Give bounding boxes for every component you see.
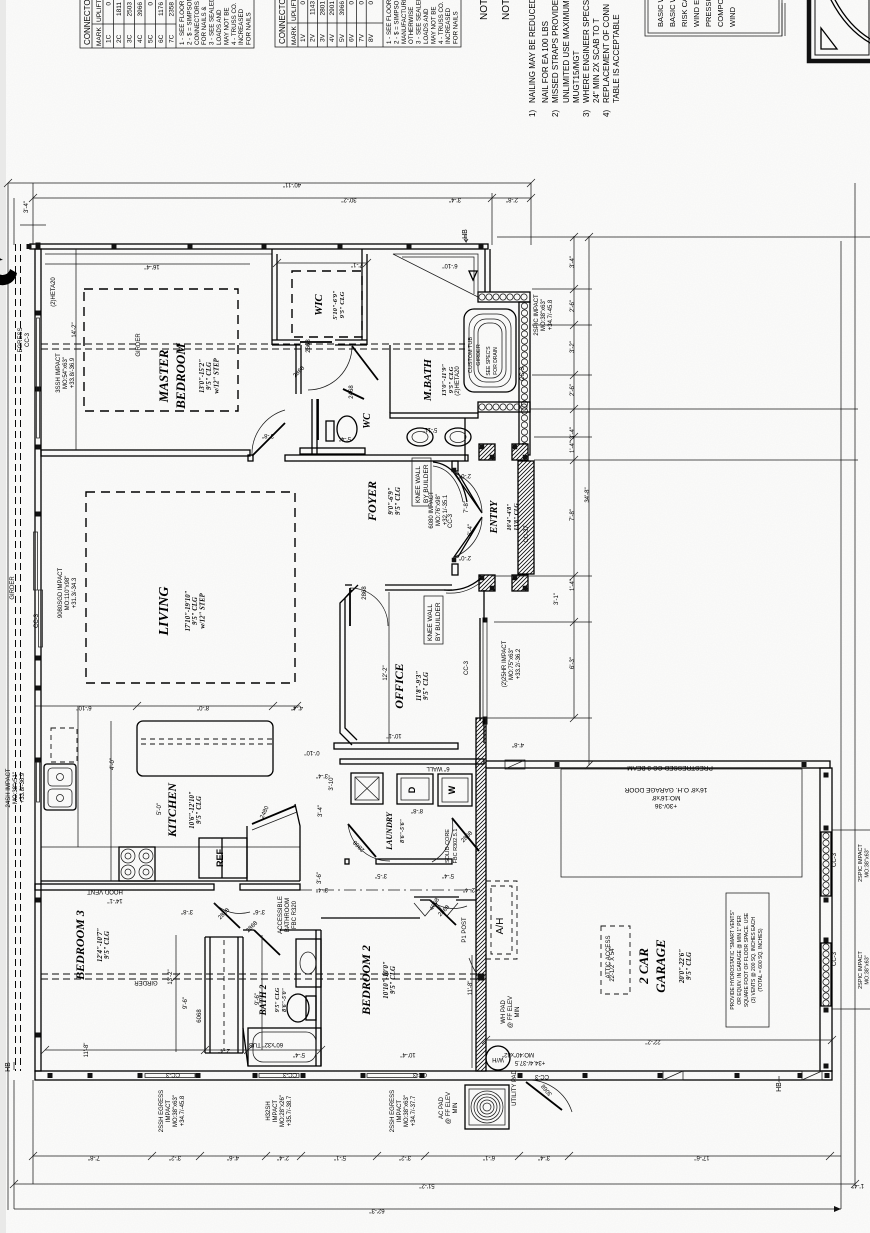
hall dash-dot	[300, 889, 480, 891]
svg-text:(2)HETA20: (2)HETA20	[455, 366, 461, 396]
windows left wall	[37, 318, 40, 438]
svg-text:REF: REF	[215, 848, 225, 867]
svg-text:4C: 4C	[137, 34, 144, 43]
svg-text:PRESSURE: PRESSURE	[704, 0, 713, 27]
svg-text:MO:38"x63": MO:38"x63"	[173, 1095, 179, 1127]
svg-text:MARK: MARK	[96, 27, 103, 46]
wc room walls	[311, 399, 313, 455]
svg-text:WC: WC	[362, 413, 373, 429]
svg-text:2901: 2901	[329, 1, 336, 16]
shower niche triangle	[393, 254, 478, 297]
knee wall labels	[412, 458, 431, 506]
svg-text:4): 4)	[602, 110, 611, 117]
svg-text:1'-4": 1'-4"	[570, 441, 576, 453]
svg-text:2503: 2503	[127, 2, 134, 17]
svg-text:1143: 1143	[310, 1, 317, 15]
svg-text:GIRDER: GIRDER	[134, 979, 158, 985]
svg-text:4 - TRUSS CO.: 4 - TRUSS CO.	[438, 1, 445, 44]
svg-text:6'-10": 6'-10"	[442, 262, 457, 268]
svg-text:10'-1": 10'-1"	[386, 732, 401, 738]
svg-text:H32SH: H32SH	[266, 1101, 272, 1120]
master bedroom south wall	[41, 450, 250, 456]
svg-text:0: 0	[358, 1, 365, 5]
bath2 tub	[248, 1028, 321, 1066]
right vertical dim strings	[573, 236, 575, 718]
kitchen lower counter	[41, 846, 300, 848]
office walls	[345, 584, 352, 586]
bath2 door 2868	[254, 930, 280, 955]
svg-text:6V: 6V	[349, 33, 356, 42]
svg-text:3): 3)	[582, 110, 591, 117]
knee wall curve upper	[433, 462, 467, 502]
svg-text:@ FF ELEV: @ FF ELEV	[446, 1092, 452, 1124]
top-left corner dims	[13, 198, 15, 245]
svg-text:3'-4": 3'-4"	[316, 886, 328, 892]
svg-text:9080SGD IMPACT: 9080SGD IMPACT	[58, 568, 64, 619]
svg-text:FOR NAILS: FOR NAILS	[453, 11, 460, 44]
svg-text:3'-5": 3'-5"	[375, 872, 387, 878]
svg-text:LOADS AND: LOADS AND	[423, 8, 430, 44]
svg-text:w/12" STEP: w/12" STEP	[199, 592, 206, 628]
washer	[438, 774, 472, 806]
svg-text:11'-8": 11'-8"	[468, 981, 474, 996]
svg-text:WHERE ENGINEER SPECS: WHERE ENGINEER SPECS	[582, 0, 591, 103]
svg-text:KITCHEN: KITCHEN	[165, 782, 179, 838]
bottom dim lines	[33, 1155, 841, 1157]
svg-text:MO:38"x63": MO:38"x63"	[541, 299, 547, 331]
svg-text:7'-8": 7'-8"	[88, 1154, 100, 1160]
svg-text:2SPIC IMPACT: 2SPIC IMPACT	[858, 843, 864, 881]
svg-text:0: 0	[349, 1, 356, 5]
6 inch wall office/laundry	[340, 759, 484, 764]
hall wall stub	[295, 345, 297, 394]
bedroom3 closet walls	[204, 937, 206, 1053]
door mbath 2468	[317, 399, 319, 440]
svg-text:MO:28"x26": MO:28"x26"	[280, 1095, 286, 1127]
svg-text:SOLID CORE: SOLID CORE	[445, 829, 451, 863]
svg-text:BY BUILDER: BY BUILDER	[423, 464, 430, 503]
svg-text:MASTER: MASTER	[156, 349, 171, 403]
svg-text:MO:38"x63": MO:38"x63"	[865, 848, 870, 877]
bedroom2 north walls	[321, 917, 420, 919]
svg-text:2'-6": 2'-6"	[570, 384, 576, 396]
svg-text:FBC R302.5.1: FBC R302.5.1	[453, 829, 459, 864]
svg-text:+34.7/-45.8: +34.7/-45.8	[548, 299, 554, 330]
svg-text:IMPACT: IMPACT	[273, 1100, 279, 1123]
entry double doors 6080	[454, 473, 482, 513]
svg-text:9'5" CLG: 9'5" CLG	[390, 966, 397, 994]
m bath vanity wall	[390, 413, 478, 418]
svg-text:OFFICE: OFFICE	[392, 663, 406, 708]
bedroom3 interior dims	[45, 1049, 321, 1051]
svg-text:12'4"-10'7": 12'4"-10'7"	[97, 928, 104, 962]
svg-text:+33.8/-36.9: +33.8/-36.9	[70, 357, 76, 388]
wic door 2668	[300, 341, 332, 343]
F/V foundation vents	[505, 760, 525, 769]
svg-text:1C: 1C	[106, 34, 113, 43]
pantry walls	[246, 826, 248, 881]
svg-text:OTHERWISE: OTHERWISE	[408, 7, 415, 44]
svg-text:20'0"-22'6": 20'0"-22'6"	[679, 949, 686, 984]
svg-text:0: 0	[148, 2, 155, 6]
svg-text:5'-0": 5'-0"	[157, 803, 163, 815]
svg-text:4'-8": 4'-8"	[512, 741, 524, 747]
living tray ceiling dashed	[86, 492, 295, 683]
svg-text:2 CAR: 2 CAR	[636, 948, 651, 985]
svg-text:2 - $ = SIMPSON: 2 - $ = SIMPSON	[393, 0, 400, 44]
svg-text:INCREASED: INCREASED	[238, 8, 245, 45]
m bath west wall	[389, 345, 391, 413]
master suite south wall / foyer north	[248, 455, 253, 461]
svg-text:9'5" CLG: 9'5" CLG	[339, 291, 346, 318]
svg-text:1V: 1V	[300, 33, 307, 42]
laundry doors 2868	[348, 824, 376, 857]
kitchen sink double	[44, 764, 76, 810]
svg-text:9'5" CLG: 9'5" CLG	[104, 931, 111, 959]
svg-text:6'-10": 6'-10"	[76, 704, 91, 710]
svg-text:PROVIDE HYDROSTATIC "SMART VEN: PROVIDE HYDROSTATIC "SMART VENTS"	[730, 910, 736, 1010]
svg-text:51'-2": 51'-2"	[419, 1182, 434, 1188]
svg-text:FOYER: FOYER	[365, 481, 379, 522]
svg-text:CC-3: CC-3	[412, 1071, 427, 1077]
svg-text:13'0"-15'2": 13'0"-15'2"	[199, 359, 206, 393]
office interior dim	[388, 592, 390, 743]
svg-text:62'-3": 62'-3"	[369, 1207, 384, 1213]
svg-text:7'-8": 7'-8"	[570, 509, 576, 521]
svg-text:30'-2": 30'-2"	[341, 196, 356, 202]
tub alcove walls	[484, 249, 486, 292]
svg-text:4'-4": 4'-4"	[291, 704, 303, 710]
svg-text:BASIC WIND: BASIC WIND	[656, 0, 665, 27]
svg-text:3'-10": 3'-10"	[329, 775, 335, 790]
svg-text:INCREASED: INCREASED	[445, 7, 452, 44]
svg-text:GARAGE: GARAGE	[653, 939, 668, 993]
svg-text:UTILITY PAD: UTILITY PAD	[512, 1069, 518, 1105]
svg-text:4'-6": 4'-6"	[227, 1154, 239, 1160]
kitchen left counter	[77, 706, 79, 847]
svg-text:2'-8": 2'-8"	[506, 196, 518, 202]
svg-text:17'10"-19'10": 17'10"-19'10"	[185, 590, 192, 631]
svg-text:FOR NAILS: FOR NAILS	[246, 12, 253, 45]
svg-text:GIRDER: GIRDER	[136, 333, 142, 357]
svg-text:+30/-36: +30/-36	[655, 802, 678, 809]
svg-text:3C: 3C	[127, 34, 134, 43]
svg-text:CC-3: CC-3	[464, 660, 470, 675]
svg-text:SQUARE FOOT OF FLOOR SPACE. US: SQUARE FOOT OF FLOOR SPACE. USE	[744, 912, 750, 1007]
svg-text:14'-2": 14'-2"	[72, 322, 78, 337]
svg-text:2'-4": 2'-4"	[463, 886, 475, 892]
svg-text:3'-4": 3'-4"	[570, 427, 576, 439]
svg-text:(TOTAL = 600 SQ. INCHES): (TOTAL = 600 SQ. INCHES)	[758, 928, 764, 991]
svg-text:CC-3: CC-3	[534, 1073, 549, 1079]
windows bottom wall	[145, 1074, 195, 1078]
svg-text:10'6"-12'10": 10'6"-12'10"	[189, 791, 196, 829]
svg-text:24SH IMPACT: 24SH IMPACT	[6, 768, 12, 807]
garage door panel	[561, 769, 802, 877]
svg-text:CONNECTOR LEGEND: CONNECTOR LEGEND	[83, 0, 92, 45]
svg-text:8V: 8V	[368, 33, 375, 42]
kitchen dims	[35, 705, 300, 707]
garage dim	[486, 1039, 832, 1041]
svg-text:1811: 1811	[116, 2, 123, 16]
svg-text:MANUFACTURER: MANUFACTURER	[401, 0, 408, 44]
dishwasher DW dashed	[51, 728, 77, 762]
svg-text:@ FF ELEV: @ FF ELEV	[508, 996, 514, 1028]
svg-text:7'-1": 7'-1"	[351, 261, 363, 267]
svg-text:2868: 2868	[362, 586, 368, 600]
svg-text:UPLIFT: UPLIFT	[291, 0, 298, 21]
svg-text:4'-0": 4'-0"	[110, 758, 116, 770]
svg-text:HB: HB	[5, 1062, 12, 1072]
svg-text:5'-4": 5'-4"	[293, 1051, 305, 1057]
svg-text:1): 1)	[528, 110, 537, 117]
svg-text:UPLIFT: UPLIFT	[96, 0, 103, 22]
svg-text:EGRESS: EGRESS	[18, 327, 24, 352]
svg-text:CONNECTORS AT: CONNECTORS AT	[194, 0, 201, 45]
svg-text:9'-6": 9'-6"	[183, 997, 189, 1009]
kitchen island	[137, 721, 273, 776]
svg-text:CC-3: CC-3	[448, 513, 454, 528]
svg-text:9'5" CLG: 9'5" CLG	[196, 796, 203, 824]
office door 2868	[350, 588, 388, 626]
svg-text:3'-2": 3'-2"	[399, 1154, 411, 1160]
svg-text:3966: 3966	[339, 1, 346, 16]
svg-text:MUGT15/MGT: MUGT15/MGT	[572, 50, 581, 103]
scan hook mark	[0, 257, 17, 285]
svg-text:LAUNDRY: LAUNDRY	[385, 811, 394, 851]
top extension lines	[7, 183, 9, 1210]
svg-text:2'-4": 2'-4"	[277, 1154, 289, 1160]
svg-text:IMPACT: IMPACT	[166, 1100, 172, 1123]
svg-text:FBC R320: FBC R320	[292, 900, 298, 929]
svg-text:3 - SEE SEALED: 3 - SEE SEALED	[209, 0, 216, 45]
svg-text:3'-6": 3'-6"	[317, 872, 323, 884]
svg-text:CC-3: CC-3	[520, 366, 526, 381]
svg-text:BEDROOM: BEDROOM	[173, 343, 188, 410]
AC unit	[465, 1085, 509, 1129]
svg-text:MO:76"x98": MO:76"x98"	[436, 494, 442, 526]
linen 4068 bifold	[414, 903, 458, 916]
svg-text:6'-4": 6'-4"	[468, 524, 474, 536]
svg-text:13'0"-11'9": 13'0"-11'9"	[441, 364, 448, 397]
hall bath door 2868	[214, 903, 240, 928]
svg-text:AC PAD: AC PAD	[439, 1096, 445, 1119]
svg-text:3'-4": 3'-4"	[538, 1154, 550, 1160]
wall connector squares left	[36, 243, 41, 248]
svg-text:9'5" CLG: 9'5" CLG	[192, 597, 199, 625]
svg-text:11'-8": 11'-8"	[84, 1043, 90, 1058]
A/H closet dashed	[486, 881, 517, 959]
svg-text:HOOD VENT: HOOD VENT	[87, 888, 123, 894]
svg-text:3966: 3966	[137, 2, 144, 17]
svg-text:9'5" CLG: 9'5" CLG	[395, 487, 402, 515]
svg-text:M.BATH: M.BATH	[422, 359, 434, 402]
svg-text:CONNECTOR LEGEND: CONNECTOR LEGEND	[278, 0, 287, 44]
svg-text:BY BUILDER: BY BUILDER	[435, 602, 442, 641]
svg-text:GIRDER: GIRDER	[10, 576, 16, 600]
svg-text:5'-4": 5'-4"	[442, 872, 454, 878]
dryer	[397, 774, 433, 804]
svg-text:5'-1": 5'-1"	[334, 1154, 346, 1160]
svg-text:+34.4/-37.5: +34.4/-37.5	[514, 1059, 545, 1065]
garage side door 3068	[526, 1082, 562, 1110]
svg-text:(3) VENTS @ 200 SQ. INCHES EAC: (3) VENTS @ 200 SQ. INCHES EACH	[751, 917, 757, 1003]
svg-text:MARK: MARK	[291, 26, 298, 45]
svg-text:3'-1": 3'-1"	[554, 593, 560, 605]
svg-text:2SSH EGRESS: 2SSH EGRESS	[390, 1090, 396, 1132]
svg-text:6" WALL: 6" WALL	[426, 765, 450, 771]
svg-text:WH PAD: WH PAD	[501, 1000, 507, 1024]
svg-text:3'-4": 3'-4"	[570, 256, 576, 268]
svg-text:2V: 2V	[310, 33, 317, 42]
svg-text:2801: 2801	[319, 1, 326, 16]
svg-text:MISSED STRAPS PROVIDE: MISSED STRAPS PROVIDE	[551, 0, 560, 103]
svg-text:+33.2/-36.2: +33.2/-36.2	[516, 648, 522, 679]
svg-text:12'-2": 12'-2"	[383, 665, 389, 680]
svg-text:0'-10": 0'-10"	[304, 749, 319, 755]
svg-text:P1 POST: P1 POST	[462, 917, 468, 943]
svg-text:TABLE IS ACCEPTABLE: TABLE IS ACCEPTABLE	[612, 14, 621, 103]
dim line 30-2 top	[33, 197, 531, 199]
svg-text:FOR DRAIN: FOR DRAIN	[493, 347, 499, 375]
svg-text:BEDROOM 3: BEDROOM 3	[73, 910, 87, 981]
svg-text:2 - $ = SIMPSON: 2 - $ = SIMPSON	[186, 0, 193, 45]
kitchen / bedroom3 wall	[35, 884, 214, 890]
svg-text:2): 2)	[551, 110, 560, 117]
svg-text:9'5" CLG: 9'5" CLG	[275, 987, 281, 1012]
svg-text:5'-4": 5'-4"	[339, 435, 351, 441]
svg-text:2SPIC IMPACT: 2SPIC IMPACT	[858, 950, 864, 988]
wh circle	[486, 1046, 510, 1070]
svg-text:HB: HB	[462, 229, 469, 239]
range cooktop	[119, 847, 155, 881]
svg-text:5V: 5V	[339, 33, 346, 42]
svg-text:MO:16'x8': MO:16'x8'	[652, 794, 681, 801]
right vertical dim lines	[840, 241, 842, 1209]
master tray ceiling dashed	[84, 289, 238, 411]
svg-text:MO:110"x98": MO:110"x98"	[65, 576, 71, 611]
wall connector squares bottom	[48, 1073, 53, 1078]
svg-text:(2)25HR IMPACT: (2)25HR IMPACT	[502, 640, 508, 687]
svg-text:9'5" CLG: 9'5" CLG	[686, 952, 693, 980]
door wc 2468	[343, 389, 364, 399]
svg-text:11'8"-9'3": 11'8"-9'3"	[416, 671, 423, 701]
garage windows right wall	[821, 832, 831, 896]
svg-text:w/12" STEP: w/12" STEP	[213, 357, 220, 393]
smart vents note box	[726, 893, 769, 1027]
svg-text:CUSTOM TUB: CUSTOM TUB	[468, 337, 474, 373]
bath2 toilet	[287, 994, 309, 1022]
svg-text:7C: 7C	[169, 34, 176, 43]
svg-text:IMPACT: IMPACT	[397, 1100, 403, 1123]
svg-text:22'-2": 22'-2"	[645, 1038, 660, 1044]
svg-text:14'-1": 14'-1"	[107, 897, 122, 903]
svg-text:MO:38"x63": MO:38"x63"	[865, 955, 870, 984]
wic dim line	[277, 262, 367, 264]
door wic 2868	[352, 346, 378, 380]
svg-text:10'-4": 10'-4"	[400, 1051, 415, 1057]
m bath sinks	[407, 428, 433, 446]
svg-text:A/H: A/H	[495, 918, 506, 935]
svg-text:WIND: WIND	[728, 6, 737, 27]
svg-text:MO:75"x63": MO:75"x63"	[509, 648, 515, 680]
svg-text:4 - TRUSS CO.: 4 - TRUSS CO.	[231, 2, 238, 45]
svg-text:+34.7/-45.8: +34.7/-45.8	[180, 1095, 186, 1126]
svg-text:BASIC WIND: BASIC WIND	[668, 0, 677, 27]
svg-text:MAY NOT BE: MAY NOT BE	[430, 7, 437, 44]
attic access dashed	[601, 926, 630, 994]
svg-text:+34.7/-37.7: +34.7/-37.7	[411, 1095, 417, 1126]
svg-text:3'-4": 3'-4"	[316, 772, 328, 778]
bottom extension verticals	[13, 1080, 15, 1209]
svg-text:COMPONENT: COMPONENT	[716, 0, 725, 27]
svg-text:KNEE WALL: KNEE WALL	[427, 604, 434, 641]
svg-text:3'-8": 3'-8"	[262, 432, 274, 438]
svg-text:0: 0	[368, 1, 375, 5]
svg-text:LOADS AND: LOADS AND	[216, 9, 223, 45]
svg-text:7V: 7V	[358, 33, 365, 42]
table connector legend	[275, 0, 461, 47]
corner detail graphic	[809, 0, 870, 61]
svg-text:4V: 4V	[329, 33, 336, 42]
svg-text:2C: 2C	[116, 34, 123, 43]
svg-text:MIN: MIN	[515, 1007, 521, 1018]
svg-text:FOR NAILS &: FOR NAILS &	[201, 6, 208, 45]
svg-text:5'-11": 5'-11"	[423, 426, 438, 432]
svg-text:1 - SEE FLOOR PLAN: 1 - SEE FLOOR PLAN	[179, 0, 186, 45]
svg-text:2SSH EGRESS: 2SSH EGRESS	[159, 1090, 165, 1132]
svg-text:40'-11": 40'-11"	[283, 181, 301, 187]
svg-text:8'6"-5'0": 8'6"-5'0"	[282, 988, 288, 1012]
svg-text:34'-8": 34'-8"	[585, 487, 591, 502]
svg-text:2SPIC IMPACT: 2SPIC IMPACT	[534, 294, 540, 336]
table connector legend	[80, 0, 254, 48]
knee wall curve lower	[444, 578, 481, 590]
svg-text:24" MIN 2X SCAB TO T: 24" MIN 2X SCAB TO T	[592, 18, 601, 103]
lanai girder dashes	[15, 244, 17, 1071]
svg-text:13'-2": 13'-2"	[168, 969, 174, 984]
svg-text:1'-4": 1'-4"	[570, 579, 576, 591]
svg-text:3'-2": 3'-2"	[169, 1154, 181, 1160]
svg-text:NOTE: NOTE	[479, 0, 490, 20]
svg-text:6'-1": 6'-1"	[483, 1154, 495, 1160]
svg-text:WIC: WIC	[313, 294, 325, 316]
svg-text:3'-2": 3'-2"	[570, 341, 576, 353]
svg-text:W: W	[447, 785, 457, 794]
svg-text:ENTRY: ENTRY	[489, 500, 500, 534]
svg-text:3'-4": 3'-4"	[24, 201, 30, 213]
svg-text:NAIL FOR EA 100 LBS: NAIL FOR EA 100 LBS	[541, 21, 550, 103]
svg-text:CC-3: CC-3	[34, 613, 40, 628]
svg-text:3 - SEE SEALED: 3 - SEE SEALED	[416, 0, 423, 44]
svg-text:WIND EXPOS: WIND EXPOS	[692, 0, 701, 27]
custom tub	[464, 309, 516, 392]
svg-text:5'10"-6'9": 5'10"-6'9"	[332, 290, 339, 320]
svg-text:5C: 5C	[148, 34, 155, 43]
svg-text:ACCESSIBLE: ACCESSIBLE	[278, 896, 284, 934]
right side extension lines	[497, 236, 870, 238]
svg-text:2'-0": 2'-0"	[459, 472, 471, 478]
niche marker triangle	[469, 271, 477, 280]
svg-text:NAILING MAY BE REDUCED: NAILING MAY BE REDUCED	[528, 0, 537, 103]
svg-text:3'-6": 3'-6"	[253, 908, 265, 914]
svg-text:2668: 2668	[306, 339, 312, 353]
entry recess walls	[452, 461, 458, 471]
wic shelving dashed	[292, 271, 362, 337]
svg-text:CC-3: CC-3	[832, 951, 838, 966]
svg-text:10'4"-4'8": 10'4"-4'8"	[507, 504, 513, 531]
svg-text:CC-3: CC-3	[165, 1071, 180, 1077]
